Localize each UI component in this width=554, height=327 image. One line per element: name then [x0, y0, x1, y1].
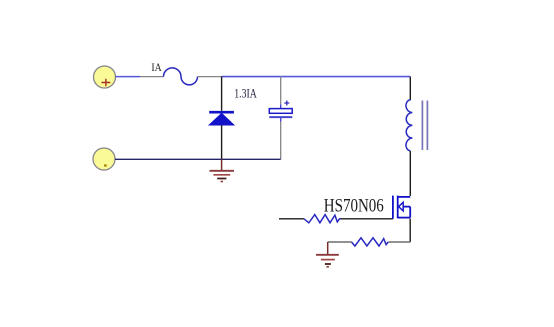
wire bottom rail [115, 158, 281, 160]
ground GND2 [316, 242, 339, 268]
svg-text:1.3IA: 1.3IA [234, 86, 257, 100]
wire source pin down [409, 219, 411, 242]
svg-text:IA: IA [151, 62, 161, 74]
terminal J1 (+) [94, 66, 116, 88]
wire top rail (capacitor node to transformer corner) [281, 76, 411, 78]
diode D1 [209, 77, 234, 160]
resistor R2 (source) [328, 238, 411, 246]
resistor R1 (gate) [279, 215, 393, 223]
svg-text:HS70N06: HS70N06 [324, 196, 384, 217]
capacitor C1 (polarized) [269, 77, 292, 160]
terminal J2 (-) [93, 148, 115, 170]
transformer T1 primary [406, 77, 427, 196]
fuse F1 [140, 68, 222, 85]
mosfet Q1 [393, 196, 410, 219]
wire from J1 to fuse [116, 76, 141, 78]
ground GND1 [210, 159, 235, 182]
wire top rail (fuse node to capacitor node) [222, 76, 281, 78]
